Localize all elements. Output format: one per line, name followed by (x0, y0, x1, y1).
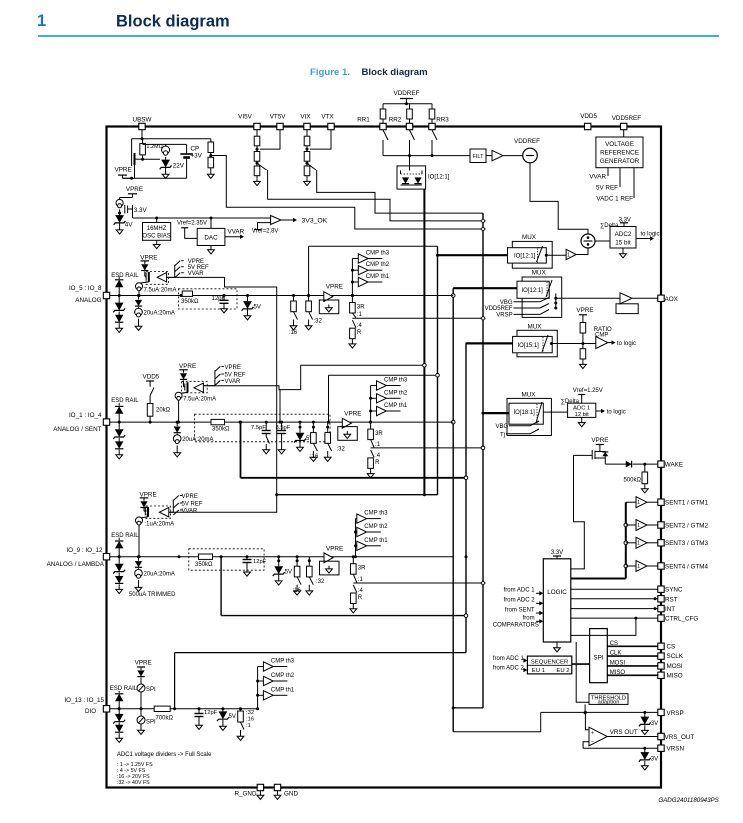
svg-text:IO[12:1]: IO[12:1] (428, 175, 450, 181)
svg-text:VDD5REF: VDD5REF (485, 306, 513, 312)
resistor RR409.5 (407, 104, 413, 124)
pin CTRL_CFG (658, 615, 699, 623)
pin CS (658, 643, 675, 650)
wire sent feed thick (571, 502, 626, 578)
svg-text:VPRE: VPRE (576, 307, 593, 314)
wire MUX4 input thick (483, 412, 509, 414)
zener 22V (160, 160, 185, 179)
divider column (254, 130, 261, 186)
svg-text:IO_1 : IO_4: IO_1 : IO_4 (69, 412, 102, 419)
svg-text:Figure 1.: Figure 1. (310, 67, 350, 78)
wire RR top (383, 102, 432, 105)
wire wake gate to logic (571, 455, 585, 569)
box VOLTAGE REFERENCE GENERATOR (596, 137, 643, 168)
svg-text:VPRE: VPRE (140, 491, 157, 498)
capacitor 7.5pF (251, 421, 271, 454)
stub VVAR (589, 168, 608, 181)
diode esd up (115, 403, 123, 422)
svg-text:VRS_OUT: VRS_OUT (665, 734, 695, 741)
pin RST (658, 596, 678, 604)
resistor R (367, 448, 380, 478)
wire row3 (110, 556, 454, 558)
heading section number (37, 12, 46, 30)
bus V2 (436, 246, 439, 494)
svg-text:CTRL_CFG: CTRL_CFG (665, 616, 698, 623)
svg-text:12pF: 12pF (204, 710, 218, 716)
svg-text:1: 1 (637, 500, 640, 506)
svg-text:MISO: MISO (667, 672, 683, 679)
svg-text:CLK: CLK (610, 651, 622, 657)
svg-text:IO[12:1]: IO[12:1] (514, 254, 536, 260)
current source pullup (175, 392, 216, 423)
transistor pullup (145, 272, 149, 282)
pin UBSW (133, 117, 152, 130)
esd diode up row4 (115, 691, 123, 709)
wire MUX1 input thick (438, 254, 508, 256)
svg-text:5V REF: 5V REF (225, 373, 246, 379)
label VPRE (115, 167, 132, 179)
svg-text:OSC BIAS: OSC BIAS (142, 234, 170, 240)
svg-text:VRS OUT: VRS OUT (610, 729, 638, 736)
mux MUX2 (517, 270, 562, 318)
svg-text:Block diagram: Block diagram (116, 13, 230, 31)
svg-text:MUX: MUX (522, 391, 537, 398)
transistor wake (574, 449, 609, 460)
svg-text:INT: INT (665, 606, 675, 613)
mux4 input VBG (496, 421, 539, 430)
comparator CMP th2 (356, 524, 389, 537)
svg-text:3R: 3R (357, 305, 365, 311)
svg-text:to logic: to logic (641, 232, 660, 238)
mux2 input VRSP (496, 310, 549, 319)
buffer SENT4 (624, 561, 661, 572)
pin VT5V (270, 114, 287, 130)
svg-text:adaption: adaption (598, 700, 620, 706)
battery CP +3V (180, 144, 202, 178)
spi switch lower (137, 709, 156, 735)
junction (118, 421, 121, 424)
amp VPRE follower (338, 411, 362, 441)
diode pullup (180, 373, 187, 383)
junction (118, 294, 121, 297)
svg-text:700kΩ: 700kΩ (156, 716, 174, 722)
mux2 input VBG (500, 298, 556, 306)
wire (277, 555, 280, 561)
svg-text:VPRE: VPRE (591, 437, 608, 444)
buffer pullup (149, 273, 167, 282)
svg-text:CMP th3: CMP th3 (366, 251, 390, 257)
wire bottom (123, 177, 187, 180)
diode vpre row4 (137, 670, 144, 681)
svg-text:CMP th1: CMP th1 (364, 538, 388, 544)
capacitor 12pF row4 (195, 707, 218, 729)
svg-text::1: :1 (357, 312, 363, 318)
wire MUX2 input thick (453, 287, 517, 289)
svg-text:VIX: VIX (300, 114, 311, 121)
stub VADC 1 REF (596, 168, 634, 203)
resistor 350k row1 (180, 291, 200, 305)
resistor stack R ubsw (207, 139, 214, 179)
wire row3 switch common (169, 495, 277, 513)
svg-text:VADC 1 REF: VADC 1 REF (596, 196, 633, 203)
svg-text:CMP th2: CMP th2 (364, 524, 388, 530)
svg-text:5V REF: 5V REF (182, 502, 203, 508)
diode wake series (626, 461, 661, 468)
zener 5V clamp (294, 426, 313, 452)
svg-text:VTX: VTX (321, 114, 334, 121)
box 16MHZ OSC BIAS (142, 218, 170, 249)
pin RR3 (429, 117, 449, 130)
divider column (304, 130, 311, 186)
svg-text:VVAR: VVAR (188, 271, 205, 277)
svg-text:VPRE: VPRE (182, 494, 198, 500)
svg-text:CS: CS (667, 643, 676, 650)
svg-text:3V: 3V (651, 757, 658, 763)
adder sigma-delta (581, 223, 619, 248)
svg-text:ESD RAIL: ESD RAIL (111, 273, 139, 279)
svg-text:Block diagram: Block diagram (362, 67, 428, 78)
regulator VDDREF circle (514, 138, 540, 163)
switch stack refs (167, 259, 209, 278)
svg-text:IO_5 : IO_8: IO_5 : IO_8 (69, 285, 102, 292)
pin WAKE (658, 461, 683, 469)
svg-text:1: 1 (567, 252, 570, 258)
wire seq to spi (572, 663, 590, 665)
pin R_GND (234, 784, 263, 799)
label ESD RAIL row4 (110, 686, 138, 692)
switch ladder 4 (352, 320, 362, 329)
svg-text::32: :32 (314, 319, 323, 325)
svg-text:Tj: Tj (500, 433, 505, 439)
svg-text:ESD RAIL: ESD RAIL (111, 398, 139, 404)
label VPRE osc (120, 186, 143, 198)
svg-text:MOSI: MOSI (610, 660, 626, 666)
resistor R (350, 583, 363, 613)
label 3.3V logic (551, 550, 563, 559)
cmp stack wire (354, 519, 357, 559)
pin IO_9 IO_12 (47, 547, 110, 568)
cmp stack wire (369, 386, 372, 424)
wire VRSN (583, 747, 661, 750)
wire threshold down (584, 704, 587, 714)
svg-text:WAKE: WAKE (665, 462, 683, 469)
bus V1 thick (277, 189, 438, 496)
diode esd down (115, 315, 123, 333)
heading rule (38, 35, 719, 37)
svg-text:12pF: 12pF (212, 296, 226, 302)
box FILT (470, 149, 486, 163)
ground logic (554, 642, 561, 652)
bus row4 up (173, 653, 466, 711)
svg-text:7.5uA:20mA: 7.5uA:20mA (183, 397, 216, 403)
mux MUX4 (507, 391, 551, 435)
branch :16 (289, 294, 298, 336)
svg-text:∑Delta: ∑Delta (561, 399, 580, 405)
zener 5V clamp (273, 559, 292, 585)
pin VRSP (658, 709, 684, 717)
svg-text:CMP th1: CMP th1 (271, 687, 295, 693)
svg-text:MUX: MUX (532, 270, 547, 277)
diode pullup (140, 501, 147, 508)
svg-text::16: :16 (293, 588, 302, 594)
logic input from SENT (505, 607, 543, 615)
bus row1 to MUX1 (307, 246, 437, 297)
svg-text:ADC 1: ADC 1 (573, 406, 590, 412)
svg-text:VRSN: VRSN (667, 746, 685, 753)
label Vref 1.25V (573, 388, 603, 403)
cmp stack wire (351, 259, 354, 298)
svg-text:VVAR: VVAR (228, 229, 245, 236)
svg-text:VDD5REF: VDD5REF (612, 115, 642, 122)
svg-text:5V: 5V (254, 305, 261, 311)
dashed buffer box (146, 506, 171, 518)
svg-text:VPRE: VPRE (326, 284, 343, 291)
svg-text:MISO: MISO (610, 670, 626, 676)
wire rail 3v3 (133, 209, 271, 220)
svg-text:REFERENCE: REFERENCE (600, 150, 639, 157)
buffer unity after MUX1 (546, 248, 588, 260)
svg-text:IO[15:1]: IO[15:1] (518, 343, 540, 349)
svg-text:ADC2: ADC2 (615, 231, 632, 238)
svg-text:R_GND: R_GND (234, 791, 256, 798)
ground adc2 (620, 248, 627, 258)
svg-text:ANALOG: ANALOG (75, 297, 101, 304)
diode below (174, 421, 181, 433)
svg-text::16: :16 (246, 717, 254, 723)
svg-text:3R: 3R (358, 566, 366, 572)
svg-text:500kΩ: 500kΩ (624, 478, 642, 484)
svg-text::4: :4 (358, 588, 364, 594)
pin VDD5 (580, 113, 597, 130)
resistor 3R (351, 555, 367, 574)
capacitor 12pF row1 (212, 294, 229, 313)
cmp stack wire (256, 667, 259, 711)
svg-text:GENERATOR: GENERATOR (600, 158, 640, 165)
svg-text:DIO: DIO (85, 708, 96, 715)
mux4 input Tj (500, 429, 539, 439)
svg-text:from ADC 1: from ADC 1 (493, 656, 525, 662)
svg-text:from SENT: from SENT (505, 607, 535, 613)
svg-text:from: from (523, 616, 535, 622)
current source I1 (162, 144, 170, 159)
zener esd down (113, 296, 125, 316)
seq input from ADC 2 (493, 665, 528, 672)
svg-text:MOSI: MOSI (667, 663, 683, 670)
svg-text:500uA TRIMMED: 500uA TRIMMED (129, 592, 176, 598)
wire wake out (605, 458, 626, 464)
current source below (135, 568, 175, 591)
comparator RATIO CMP (594, 327, 636, 349)
svg-text:CMP th2: CMP th2 (384, 390, 408, 396)
svg-text:20uA:20mA: 20uA:20mA (144, 572, 175, 578)
svg-text:VRSP: VRSP (496, 313, 512, 319)
svg-text:RR2: RR2 (389, 117, 402, 124)
comparator CMP th3 (258, 659, 295, 672)
bus row3 to V5 (220, 555, 464, 615)
svg-text:CMP th1: CMP th1 (384, 403, 408, 409)
diode esd down (115, 576, 123, 594)
pin VI5V (238, 114, 260, 130)
svg-text::32: :32 (337, 447, 346, 453)
svg-text:LOGIC: LOGIC (547, 589, 567, 596)
diode pullup (141, 264, 148, 273)
divider VPRE ratio (576, 307, 593, 369)
current source below (173, 434, 213, 457)
svg-text::16: :16 (310, 454, 319, 460)
svg-text:4V: 4V (125, 222, 134, 229)
svg-text:20kΩ: 20kΩ (156, 408, 171, 414)
zener esd down (113, 557, 125, 577)
wire (312, 421, 315, 428)
wire (135, 159, 161, 178)
transistor Q osc 3.3V (125, 198, 148, 215)
label VPRE pullup (140, 254, 157, 264)
switches RR (383, 130, 470, 157)
svg-text:VT5V: VT5V (270, 114, 287, 121)
svg-text::1: :1 (358, 577, 364, 583)
pin SCLK (658, 653, 684, 660)
figure caption (310, 67, 428, 78)
wire tap (310, 130, 331, 149)
switch stack refs (203, 365, 245, 386)
text fs lines (117, 762, 153, 786)
svg-text:to logic: to logic (617, 341, 636, 347)
svg-text:+: + (591, 730, 594, 736)
wire CTRL_CFG (571, 617, 661, 620)
svg-text:5V: 5V (285, 570, 292, 576)
buffer SENT1 (626, 497, 661, 508)
pin GND (274, 784, 298, 799)
svg-text:from ADC 2: from ADC 2 (493, 665, 525, 671)
resistor 700k (154, 706, 173, 721)
switch ladder 1 (371, 440, 482, 448)
svg-text:FILT: FILT (472, 154, 484, 160)
wire (296, 555, 299, 561)
svg-text:RR3: RR3 (436, 117, 449, 124)
svg-text:from ADC 2: from ADC 2 (504, 598, 536, 604)
wire INT (571, 607, 661, 610)
svg-text:to logic: to logic (607, 409, 626, 415)
pin SENT1 (658, 499, 709, 507)
diode esd up (115, 538, 123, 557)
pin SENT2 (658, 522, 709, 530)
switch stack refs (169, 494, 203, 515)
svg-text:VDDREF: VDDREF (394, 90, 420, 97)
box ADC1 (543, 403, 596, 418)
wire SYNC (571, 588, 661, 590)
buffer AOX (556, 293, 661, 314)
svg-text::32 -> 40V FS: :32 -> 40V FS (117, 780, 150, 786)
svg-text:3V3_OK: 3V3_OK (302, 218, 328, 225)
diode below (135, 294, 142, 306)
svg-text:AOX: AOX (665, 296, 679, 303)
wire RST (571, 597, 661, 600)
svg-text:IO[18:1]: IO[18:1] (514, 410, 536, 416)
svg-text:CS: CS (610, 641, 618, 647)
comparator 3V3_OK (252, 216, 328, 235)
arrow to logic adc2 (636, 232, 660, 241)
box LOGIC (543, 559, 571, 642)
svg-text:SENT2 / GTM2: SENT2 / GTM2 (665, 522, 709, 529)
comparator CMP th2 (352, 262, 389, 275)
svg-text:1: 1 (637, 564, 640, 570)
switch VI5V sense (257, 163, 483, 221)
wire vrs minus feedback (583, 742, 589, 748)
resistor RR383 (380, 104, 386, 124)
svg-text:IO_9 : IO_12: IO_9 : IO_12 (66, 547, 103, 554)
switch ladder 1 (352, 312, 481, 318)
current source below (135, 307, 175, 330)
box IO 12:1 esd (397, 156, 450, 189)
label VPRE row4 (135, 660, 152, 671)
svg-text:SENT1 / GTM1: SENT1 / GTM1 (665, 500, 709, 507)
resistor 1.2M (140, 139, 163, 161)
svg-text:CMP th3: CMP th3 (364, 511, 388, 517)
svg-text:350kΩ: 350kΩ (212, 427, 230, 433)
wire row2 top bus (327, 373, 439, 423)
zener 4V (114, 215, 134, 234)
svg-text:SEQUENCER: SEQUENCER (531, 660, 568, 666)
svg-text:ESD RAIL: ESD RAIL (111, 533, 139, 539)
dashed select box row1 (178, 289, 237, 309)
svg-text:GADG2401180943PS: GADG2401180943PS (658, 797, 719, 804)
label ESD RAIL (111, 533, 139, 539)
pin MISO (658, 672, 683, 679)
logic input from COMPARATORS (493, 616, 544, 629)
capacitor 12pF row3 (243, 555, 267, 576)
diode esd up (115, 277, 123, 296)
svg-text:MUX: MUX (528, 323, 543, 330)
branch ratio row4 (237, 707, 254, 740)
svg-text:SENT3 / GTM3: SENT3 / GTM3 (665, 540, 709, 547)
svg-text:VBG: VBG (500, 300, 513, 306)
dashed buffer box (146, 272, 169, 285)
svg-text:12 bit: 12 bit (575, 412, 590, 418)
box SEQUENCER (527, 656, 571, 674)
svg-text:VI5V: VI5V (238, 114, 252, 121)
svg-text:VPRE: VPRE (135, 660, 152, 667)
svg-text:7.5uA:20mA: 7.5uA:20mA (144, 287, 177, 293)
diode esd row4 low (115, 707, 123, 742)
wire MUX3 input thick (466, 342, 513, 344)
svg-text:1: 1 (637, 541, 640, 547)
pin SENT3 (658, 540, 709, 548)
current source pullup (136, 282, 177, 297)
comparator CMP th3 (371, 378, 408, 391)
svg-text:CP: CP (191, 146, 200, 153)
branch :32 (305, 294, 322, 330)
comparator CMP th1 (371, 403, 408, 416)
wire (308, 557, 310, 561)
svg-text:VOLTAGE: VOLTAGE (605, 141, 634, 148)
svg-text:VDDREF: VDDREF (514, 138, 540, 145)
svg-text:VDD5: VDD5 (580, 113, 597, 120)
wire (143, 144, 187, 159)
pin IO_1 IO_4 (53, 412, 109, 433)
diode below (135, 555, 142, 567)
zener 5V row4 (217, 707, 236, 730)
svg-text:3.3V: 3.3V (134, 207, 148, 214)
wire row2 (110, 421, 454, 423)
svg-text:ADC1 voltage dividers -> Full: ADC1 voltage dividers -> Full Scale (117, 752, 212, 758)
wire (299, 421, 302, 428)
resistor 350k row3 (178, 554, 214, 568)
label VPRE pullup (179, 363, 196, 373)
label ESD RAIL (111, 398, 139, 404)
svg-text:VPRE: VPRE (179, 363, 196, 370)
svg-text:CMP th2: CMP th2 (366, 262, 390, 268)
pin INT (658, 605, 675, 613)
